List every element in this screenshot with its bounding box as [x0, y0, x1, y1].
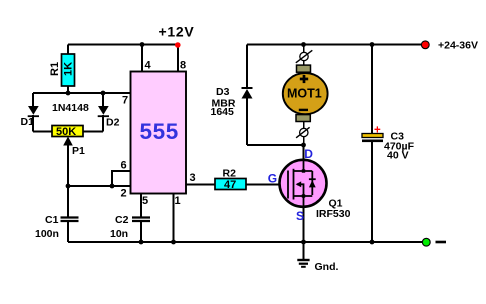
node C3 rail junction — [370, 240, 375, 245]
wire motor top lead — [303, 45, 305, 53]
diode D1 — [28, 106, 39, 116]
wire R2 to gate — [246, 184, 288, 186]
svg-text:D1: D1 — [21, 116, 35, 128]
wire C3 branch — [371, 45, 373, 243]
capacitor C3 electrolytic — [362, 134, 383, 143]
wire pin5 lead — [140, 194, 142, 243]
wire D3 branch — [247, 45, 304, 146]
wire P1 wiper lead — [67, 143, 69, 186]
svg-text:555: 555 — [140, 119, 179, 144]
node motor/drain junction — [301, 143, 306, 148]
wire pin7 rail — [33, 92, 131, 94]
motor bottom terminal connector — [296, 127, 310, 138]
wire +12V rail — [68, 44, 178, 46]
node source tap junction — [302, 194, 305, 197]
label motor plus — [300, 75, 308, 83]
wire pin8 lead — [177, 45, 179, 73]
resistor R2 — [215, 179, 246, 190]
motor top brush — [297, 65, 311, 72]
source tap — [294, 196, 313, 207]
wire C1 branch — [67, 186, 69, 242]
body diode triangle — [309, 180, 316, 187]
node C2 rail junction — [139, 240, 144, 245]
wire drain lead — [303, 145, 305, 161]
resistor R1 — [62, 54, 75, 86]
svg-text:D2: D2 — [106, 117, 120, 129]
body diode line — [311, 171, 313, 195]
wire bottom ground rail — [68, 241, 422, 243]
motor bottom brush — [296, 115, 310, 122]
svg-text:100n: 100n — [35, 228, 59, 240]
wire D2 leads — [83, 93, 103, 132]
ground — [297, 260, 309, 267]
mid tap — [297, 184, 304, 196]
svg-text:R1: R1 — [49, 62, 61, 76]
svg-text:3: 3 — [190, 172, 196, 184]
potentiometer P1 50K — [52, 126, 83, 137]
transistor Q1 IRF530 body — [280, 160, 327, 207]
wire +24-36V rail — [247, 44, 421, 46]
wire motor bottom lead — [303, 137, 305, 146]
svg-text:1N4148: 1N4148 — [52, 102, 89, 114]
gate bar — [287, 171, 289, 199]
svg-text:C2: C2 — [115, 214, 129, 226]
wire pin4 lead — [141, 45, 143, 73]
diode D2 — [98, 106, 109, 116]
svg-text:47: 47 — [224, 179, 236, 191]
node P1/pin2 junction — [66, 184, 71, 189]
svg-text:R2: R2 — [223, 168, 237, 180]
node pin1 rail junction — [171, 240, 176, 245]
svg-text:MOT1: MOT1 — [287, 86, 322, 100]
node source rail junction — [301, 240, 306, 245]
motor MOT1 body — [283, 73, 328, 114]
wire motor bottom brush lead — [303, 121, 305, 129]
svg-text:1645: 1645 — [211, 106, 235, 118]
mid tap arrowhead — [296, 181, 302, 187]
op-amp U1 555 timer body — [131, 72, 187, 194]
svg-text:1: 1 — [175, 195, 181, 207]
node negative output terminal — [422, 238, 430, 246]
wire ground lead — [303, 242, 305, 260]
body diode bar — [309, 178, 316, 180]
svg-text:P1: P1 — [72, 145, 85, 157]
node +24-36V terminal — [421, 41, 429, 49]
transistor Q1 internals — [288, 160, 316, 207]
node pin4 junction — [140, 42, 145, 47]
svg-text:Gnd.: Gnd. — [315, 261, 339, 273]
capacitor C2 — [132, 218, 150, 222]
wire pin1 lead — [173, 194, 175, 243]
svg-text:5: 5 — [142, 195, 148, 207]
node pin6/pin2 junction — [110, 184, 115, 189]
node C3 top junction — [370, 42, 375, 47]
svg-text:+24-36V: +24-36V — [438, 40, 478, 52]
label motor minus — [299, 109, 308, 111]
svg-text:50K: 50K — [56, 126, 76, 138]
svg-text:6: 6 — [121, 160, 127, 172]
node R1/D rail junction — [66, 91, 71, 96]
wire pin2 line — [68, 185, 131, 187]
svg-text:C1: C1 — [45, 214, 59, 226]
wire pin6 branch — [112, 171, 131, 186]
svg-text:+12V: +12V — [159, 24, 195, 40]
drain tap — [294, 170, 313, 172]
node motor top junction — [301, 42, 306, 47]
svg-text:D3: D3 — [216, 86, 230, 98]
capacitor C1 — [61, 218, 79, 222]
svg-text:40 V: 40 V — [387, 150, 409, 162]
node drain tap junction — [302, 169, 305, 172]
wire R1 bottom lead — [67, 86, 69, 93]
svg-text:1K: 1K — [63, 62, 75, 76]
motor top terminal connector — [296, 50, 313, 63]
svg-text:IRF530: IRF530 — [316, 208, 351, 220]
svg-text:7: 7 — [122, 95, 128, 107]
wire D1 leads — [33, 93, 52, 132]
label minus terminal — [436, 241, 447, 244]
drain riser — [303, 160, 305, 171]
svg-text:10n: 10n — [110, 228, 128, 240]
wire pin3 to R2 — [186, 184, 215, 186]
wire motor connector-brush lead — [303, 61, 305, 67]
svg-text:4: 4 — [145, 60, 152, 72]
node D2 rail junction — [101, 91, 106, 96]
svg-text:2: 2 — [121, 188, 127, 200]
svg-text:8: 8 — [180, 60, 186, 72]
svg-text:D: D — [304, 147, 313, 161]
channel bar — [293, 169, 295, 200]
svg-text:S: S — [296, 209, 304, 223]
svg-text:G: G — [268, 171, 277, 185]
diode D3 — [242, 88, 253, 99]
node +12V red dot — [175, 42, 181, 48]
svg-text:+: + — [374, 124, 381, 136]
potentiometer wiper arrow — [63, 137, 73, 146]
wire R1 top lead — [67, 45, 69, 56]
wire source lead — [303, 206, 305, 242]
